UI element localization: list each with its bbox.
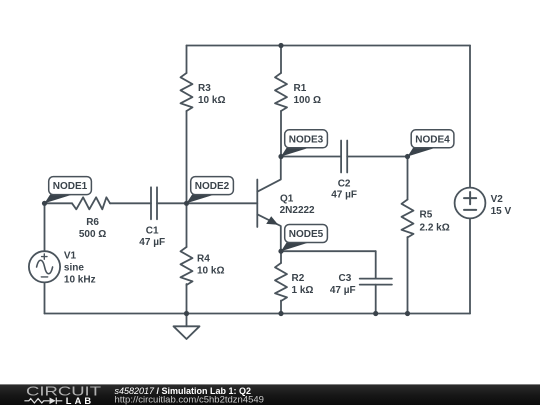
label R3 value [198, 83, 225, 106]
wire V1 branch bottom [44, 282, 46, 313]
node dot ground junction [184, 311, 189, 316]
svg-text:47 µF: 47 µF [331, 189, 357, 200]
wire V2 branch bottom [469, 218, 471, 313]
wire C2 to NODE4 [347, 156, 407, 158]
svg-text:47 µF: 47 µF [330, 285, 356, 296]
wire bottom rail [45, 313, 471, 315]
label R4 value [197, 254, 224, 277]
node dot top R1 [278, 43, 283, 48]
svg-text:47 µF: 47 µF [139, 237, 165, 248]
svg-text:LAB: LAB [66, 396, 94, 405]
svg-text:C2: C2 [338, 178, 351, 189]
svg-text:R2: R2 [292, 273, 305, 284]
capacitor C3 [360, 279, 392, 285]
label C1 value [139, 225, 165, 248]
svg-text:C3: C3 [339, 273, 352, 284]
node dot NODE3 [278, 154, 283, 159]
svg-text:R5: R5 [420, 210, 433, 221]
svg-text:sine: sine [64, 262, 84, 273]
svg-text:10 kHz: 10 kHz [64, 274, 96, 285]
svg-text:100 Ω: 100 Ω [294, 95, 321, 106]
svg-text:1 kΩ: 1 kΩ [292, 285, 314, 296]
node dot R5 bottom [405, 311, 410, 316]
ground [174, 326, 200, 339]
svg-text:R6: R6 [86, 217, 99, 228]
wire NODE1 to R6 [45, 202, 73, 204]
wire R1 top lead [280, 46, 282, 74]
node flag NODE2 [187, 177, 234, 204]
label R5 value [420, 210, 450, 234]
wire R3 top lead [186, 46, 188, 74]
wire R2 bottom lead [280, 301, 282, 314]
voltage source V1 [29, 251, 60, 282]
svg-text:V1: V1 [64, 250, 77, 261]
node flag NODE4 [408, 130, 454, 157]
svg-text:500 Ω: 500 Ω [79, 229, 106, 240]
label V1 value [64, 250, 96, 285]
footer bar [0, 384, 540, 405]
node dot NODE4 [405, 154, 410, 159]
wire NODE5 to C3 [281, 250, 376, 252]
wire V2 branch top [469, 46, 471, 188]
label Q1 value [280, 193, 315, 216]
wire top rail [187, 45, 471, 47]
node dot C3 bottom [373, 311, 378, 316]
svg-text:http://circuitlab.com/c5hb2tdz: http://circuitlab.com/c5hb2tdzn4549 [115, 395, 264, 405]
svg-text:NODE1: NODE1 [53, 181, 88, 192]
node dot R2 bottom [278, 311, 283, 316]
wire R2 top lead [280, 251, 282, 263]
label C2 value [331, 178, 357, 200]
node flag NODE1 [45, 177, 92, 204]
svg-text:NODE2: NODE2 [195, 181, 230, 192]
resistor R2 [275, 263, 287, 301]
label R1 value [294, 83, 321, 106]
wire V1 branch top [44, 203, 46, 251]
label V2 value [491, 194, 512, 217]
svg-text:NODE5: NODE5 [289, 229, 324, 240]
svg-text:C1: C1 [146, 225, 159, 236]
footer title [115, 386, 252, 396]
wire R6 to C1 [110, 202, 151, 204]
svg-text:R4: R4 [197, 254, 210, 265]
wire C1 to NODE2 [157, 202, 187, 204]
svg-text:10 kΩ: 10 kΩ [198, 95, 225, 106]
wire R5 bottom lead [407, 237, 409, 314]
svg-text:10 kΩ: 10 kΩ [197, 266, 224, 277]
junction node dots [42, 43, 410, 316]
wire C3 top lead [375, 251, 377, 278]
resistor R5 [402, 200, 414, 238]
resistor R1 [275, 73, 287, 111]
resistor R4 [181, 247, 193, 285]
svg-text:R3: R3 [198, 83, 211, 94]
capacitor C1 [151, 187, 157, 219]
wire base NODE2 to Q1 [187, 202, 258, 204]
wire C3 bottom lead [375, 285, 377, 314]
svg-text:V2: V2 [491, 194, 504, 205]
node flag NODE5 [281, 225, 327, 252]
svg-text:NODE4: NODE4 [415, 134, 450, 145]
wire R4 bottom lead [186, 284, 188, 314]
svg-text:2.2 kΩ: 2.2 kΩ [420, 222, 450, 233]
transistor Q1 [257, 157, 281, 252]
wire R3 bottom lead to NODE2 [186, 111, 188, 203]
voltage source V2 [455, 188, 486, 219]
node dot NODE1 [42, 201, 47, 206]
resistor R6 [72, 197, 110, 209]
wire ground stub [186, 314, 188, 327]
svg-text:15 V: 15 V [491, 206, 512, 217]
wire R1 bottom lead to NODE3 [280, 111, 282, 157]
node dot NODE5 [278, 249, 283, 254]
label C3 value [330, 273, 356, 296]
footer url [115, 395, 264, 405]
svg-text:Q1: Q1 [280, 193, 294, 204]
label R6 value [79, 217, 106, 240]
wire R4 top lead [186, 203, 188, 247]
node flag NODE3 [281, 130, 327, 157]
logo CircuitLab [24, 384, 101, 405]
wire NODE3 to C2 [281, 156, 341, 158]
wire R5 top lead [407, 157, 409, 200]
node dot NODE2 [184, 201, 189, 206]
svg-text:NODE3: NODE3 [289, 134, 324, 145]
svg-text:2N2222: 2N2222 [280, 205, 315, 216]
capacitor C2 [341, 141, 347, 173]
resistor R3 [181, 73, 193, 111]
svg-text:R1: R1 [294, 83, 307, 94]
label R2 value [292, 273, 314, 296]
